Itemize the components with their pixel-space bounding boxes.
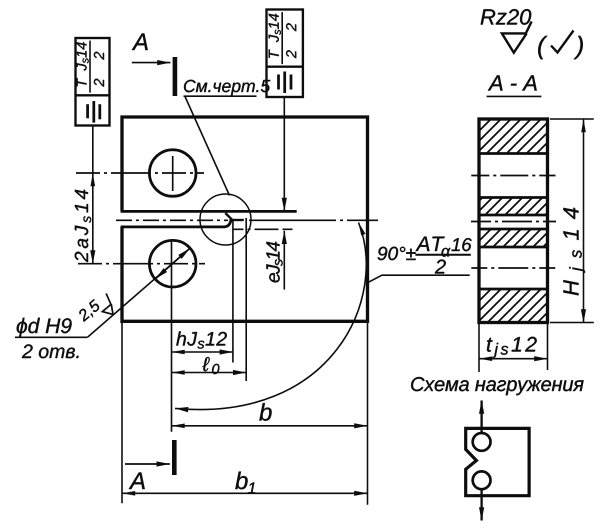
section marker A bottom bar xyxy=(172,440,177,475)
label Sm.chert.5 xyxy=(184,80,270,96)
label 90 deg xyxy=(378,247,416,261)
extension line right edge xyxy=(367,322,369,505)
hole 1 horizontal center line xyxy=(76,172,204,174)
dimension line l0 xyxy=(172,372,247,374)
section slot center line xyxy=(471,221,556,223)
detail circle xyxy=(200,194,251,245)
section outline xyxy=(479,119,548,323)
hole 1 xyxy=(149,150,196,197)
loading arrow up xyxy=(480,401,482,442)
dimension 2a leader from frame xyxy=(92,126,94,174)
hole diameter leader xyxy=(88,248,190,337)
label hJs12 xyxy=(176,331,197,345)
hole 2 vertical center line and extension xyxy=(171,240,173,432)
section hole2 upper edge xyxy=(479,246,548,249)
tolerance frame right xyxy=(267,10,303,98)
extension H top xyxy=(550,118,594,120)
dimension line H xyxy=(583,119,585,323)
label tjs12 xyxy=(487,338,493,352)
label AT xyxy=(416,237,445,251)
dimension e lower arrow xyxy=(283,231,285,290)
label b1 xyxy=(235,472,247,490)
hole 2 xyxy=(149,240,196,287)
extension line slot end xyxy=(232,220,234,363)
label 2aJs14 xyxy=(75,226,89,263)
tolerance frame left xyxy=(76,38,110,126)
loading arrow down xyxy=(480,480,482,520)
hole 1 vertical center line xyxy=(172,156,174,191)
hole diameter arrow 2 xyxy=(155,248,190,279)
hole 2 horizontal center line xyxy=(78,263,205,265)
loading pin top xyxy=(473,433,491,451)
leader Sm.chert.5 xyxy=(184,96,257,195)
label A bottom xyxy=(129,473,145,490)
extension H bottom xyxy=(550,322,594,324)
section label underline xyxy=(487,95,542,97)
label 2 otv xyxy=(22,344,79,358)
section hatch band 4 xyxy=(479,289,548,323)
label A top xyxy=(132,34,148,51)
section hole2 center line xyxy=(471,267,556,269)
roughness symbol triangle xyxy=(502,22,532,53)
label l0 xyxy=(202,357,209,371)
section hatch band 2 xyxy=(479,198,548,216)
slot lower edge xyxy=(121,221,231,227)
label phi d H9 xyxy=(17,318,72,338)
offset center line e xyxy=(234,228,296,230)
section marker A top arrow xyxy=(132,62,171,64)
dimension line b xyxy=(172,425,368,427)
section hole1 lower edge xyxy=(479,196,548,199)
label eJs14 xyxy=(266,264,279,282)
dimension line t xyxy=(479,358,548,360)
dimension line b1 xyxy=(122,492,368,494)
dimension line hJs12 xyxy=(172,351,233,353)
slot center line right xyxy=(249,219,382,221)
section hole1 center line xyxy=(471,175,555,177)
checkmark in parens xyxy=(538,36,547,59)
label loading scheme xyxy=(411,377,583,395)
section marker A top bar xyxy=(173,57,178,96)
dimension line 2a xyxy=(92,173,94,264)
loading pin bottom xyxy=(473,471,491,489)
section slot upper edge xyxy=(479,214,548,217)
label Hjs14 xyxy=(563,280,578,295)
section hatch band 3 xyxy=(479,229,548,247)
leader from right frame / dimension e upper arrow xyxy=(283,97,285,211)
extension t left xyxy=(478,323,480,372)
label alpha xyxy=(442,248,451,257)
part body outline xyxy=(122,117,368,321)
label b xyxy=(259,403,271,421)
section hatch band 1 xyxy=(479,119,548,154)
label 16 xyxy=(452,238,472,251)
label 2 denominator xyxy=(435,260,446,274)
symmetry symbol left xyxy=(92,101,95,123)
section hole1 upper edge xyxy=(479,152,548,155)
label Rz20 xyxy=(481,9,532,25)
slot upper edge xyxy=(121,210,297,213)
section marker A bottom arrow xyxy=(125,463,170,465)
extension line crack tip xyxy=(245,218,247,381)
section label A-A xyxy=(488,75,537,90)
angle arc 90 deg xyxy=(175,223,366,410)
slot crack line xyxy=(230,219,244,221)
tolerance value T/2 Js14/2 left xyxy=(77,41,105,93)
tolerance value T/2 Js14/2 right xyxy=(269,12,297,64)
section hole2 lower edge xyxy=(479,288,548,291)
callout underline xyxy=(15,336,88,338)
symmetry symbol right xyxy=(283,72,286,94)
slot center line left xyxy=(116,219,228,221)
extension line left edge xyxy=(121,322,123,504)
roughness mark 2.5 on leader xyxy=(77,291,120,332)
section slot lower edge xyxy=(479,228,548,231)
angle label leader xyxy=(367,275,470,283)
slot chevron diagonal xyxy=(225,213,232,220)
loading specimen square with notch xyxy=(466,428,529,495)
extension t right xyxy=(547,323,549,370)
fraction bar AT16/2 xyxy=(415,254,470,256)
